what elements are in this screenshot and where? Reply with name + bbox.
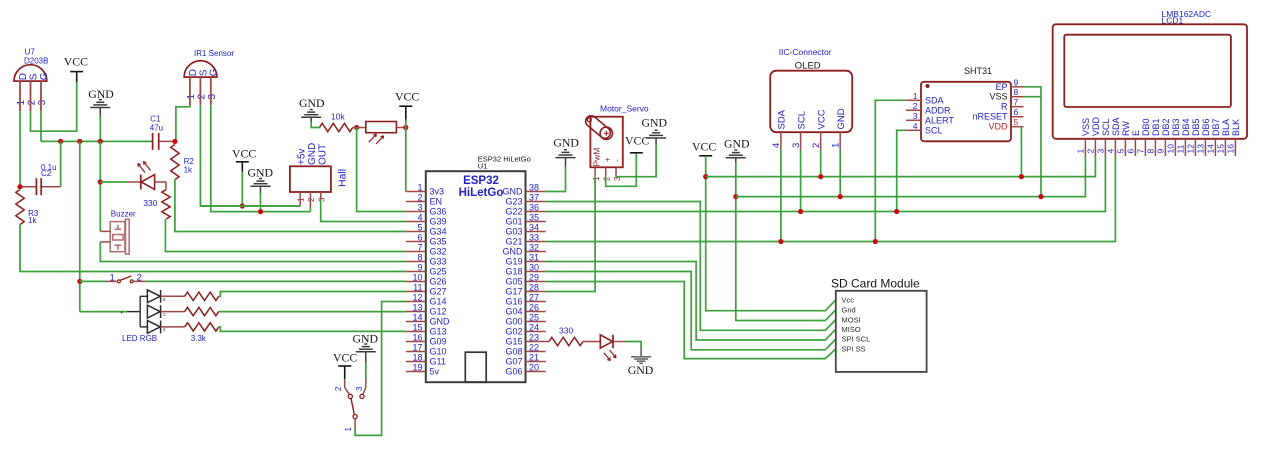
svg-text:330: 330 [559, 325, 573, 335]
svg-text:G25: G25 [430, 267, 447, 277]
LED D1 to 330 resistor [155, 181, 166, 183]
wire switch-net vertical x80 [79, 141, 81, 311]
wire G05 to SD SPI SS [546, 282, 836, 359]
svg-text:MISO: MISO [842, 325, 861, 334]
wire GND to 10k [311, 122, 319, 128]
svg-text:GND: GND [503, 187, 524, 197]
svg-text:G07: G07 [505, 357, 522, 367]
svg-text:SCL: SCL [925, 125, 943, 135]
svg-text:S: S [28, 73, 39, 80]
svg-text:SPI SCL: SPI SCL [842, 335, 871, 344]
svg-text:Gnd: Gnd [842, 305, 856, 314]
svg-text:G36: G36 [430, 207, 447, 217]
wire RGB-B to G27 row [219, 292, 406, 297]
LED D1 (left, red) wires [100, 181, 127, 183]
svg-text:+: + [120, 310, 124, 316]
wire hall pin2 tail [309, 207, 311, 212]
wire SHT31 EP/VSS to GND row [1024, 87, 1042, 197]
svg-text:12: 12 [412, 292, 422, 302]
SHT31 pin 4 SCL [906, 129, 921, 131]
wire U7 pin2 to VCC [31, 82, 77, 132]
IR1 pin stubs [189, 77, 191, 105]
svg-text:GND: GND [248, 166, 274, 180]
resistor 3.3k B [185, 292, 219, 300]
svg-text:G02: G02 [505, 327, 522, 337]
U1 pin 21 G07 [526, 361, 546, 363]
svg-text:G01: G01 [505, 217, 522, 227]
svg-text:G05: G05 [505, 277, 522, 287]
U1 pin 22 G08 [526, 351, 546, 353]
svg-text:VSS: VSS [989, 92, 1007, 102]
junction bus-C2 [58, 139, 63, 144]
svg-text:R: R [163, 328, 167, 333]
svg-text:MOSI: MOSI [842, 315, 861, 324]
U1 pin 20 G06 [526, 371, 546, 373]
svg-text:6: 6 [1126, 149, 1136, 154]
wire ground bus y141 [41, 140, 153, 142]
svg-text:G34: G34 [430, 227, 447, 237]
junction switch row [77, 279, 82, 284]
svg-text:2: 2 [197, 94, 208, 100]
U1 pin 17 G10 [406, 351, 426, 353]
svg-text:9: 9 [1156, 149, 1166, 154]
svg-text:10k: 10k [331, 111, 345, 121]
wire SHT31 VDD to VCC row [1020, 127, 1022, 177]
svg-text:VSS: VSS [1081, 118, 1091, 136]
junction GND-LED cathode [98, 179, 103, 184]
svg-text:DB7: DB7 [1211, 118, 1221, 136]
svg-text:1: 1 [592, 176, 601, 181]
wire IR1 pin3 to GND row [211, 105, 311, 211]
SHT31 pin 1 SDA [906, 99, 921, 101]
wire IR1 pin2 to VCC row [200, 105, 300, 206]
svg-text:19: 19 [412, 362, 422, 372]
svg-text:4: 4 [913, 121, 918, 131]
svg-text:7: 7 [1014, 97, 1019, 107]
svg-text:2: 2 [1086, 149, 1096, 154]
svg-text:SHT31: SHT31 [964, 66, 992, 76]
svg-text:5v: 5v [430, 367, 440, 377]
svg-text:5: 5 [1014, 117, 1019, 127]
svg-text:35: 35 [529, 212, 539, 222]
svg-text:HiLetGo: HiLetGo [459, 187, 504, 199]
svg-text:G22: G22 [505, 207, 522, 217]
svg-text:DB4: DB4 [1181, 118, 1191, 136]
svg-text:RW: RW [1121, 121, 1131, 136]
svg-text:16: 16 [1226, 144, 1236, 154]
svg-text:R: R [1001, 102, 1008, 112]
wire GND stem to bus [99, 116, 101, 142]
svg-text:PwM: PwM [591, 148, 601, 167]
svg-text:G09: G09 [430, 337, 447, 347]
svg-text:Vcc: Vcc [842, 296, 855, 305]
U1 pin 15 G13 [406, 331, 426, 333]
svg-text:4: 4 [417, 212, 422, 222]
svg-text:G11: G11 [430, 357, 446, 367]
svg-text:DB1: DB1 [1151, 118, 1161, 136]
svg-text:11: 11 [413, 282, 422, 292]
svg-text:11: 11 [1176, 144, 1186, 153]
svg-text:5: 5 [1116, 149, 1126, 154]
svg-text:G16: G16 [505, 297, 522, 307]
wire VCC down to 3v3 pin [405, 120, 407, 192]
svg-text:E: E [1131, 130, 1141, 136]
svg-text:nRESET: nRESET [972, 112, 1008, 122]
svg-text:ESP32: ESP32 [463, 175, 499, 187]
svg-text:G06: G06 [505, 367, 522, 377]
svg-text:3: 3 [1096, 149, 1106, 154]
servo pin stubs [594, 167, 596, 176]
svg-text:9: 9 [417, 262, 422, 272]
svg-text:2: 2 [913, 101, 918, 111]
SHT31 pin 3 ALERT [906, 119, 921, 121]
svg-text:G32: G32 [430, 247, 447, 257]
svg-text:1: 1 [297, 197, 306, 202]
svg-text:3.3k: 3.3k [191, 334, 207, 343]
svg-text:27: 27 [529, 292, 539, 302]
LED D1 body [140, 175, 142, 190]
svg-text:B: B [163, 297, 166, 302]
svg-text:Hall: Hall [337, 169, 349, 187]
wire 330 to G32 row [165, 220, 405, 252]
svg-text:G23: G23 [505, 197, 522, 207]
LED D2 body [600, 335, 612, 348]
LED RGB diode G [147, 305, 160, 318]
SHT31 pin 9 EP [1011, 86, 1024, 88]
switch SW1 [80, 280, 106, 282]
LED RGB lead R [161, 326, 185, 328]
hall pin 1 stub [299, 192, 301, 206]
wire OLED GND down [839, 150, 841, 197]
svg-text:32: 32 [529, 242, 539, 252]
svg-text:OLED: OLED [795, 60, 821, 71]
wire SCL row G22 [546, 156, 1106, 212]
wire buzzer bottom to G33 row [100, 242, 406, 262]
svg-text:1: 1 [1076, 149, 1086, 154]
svg-text:15: 15 [1216, 144, 1226, 154]
wire SDA row G21 [546, 156, 1116, 242]
svg-text:GND: GND [836, 108, 847, 129]
wire LED D2 to GND [625, 342, 641, 348]
svg-text:21: 21 [529, 352, 539, 362]
svg-text:DB6: DB6 [1201, 118, 1211, 136]
svg-text:36: 36 [529, 202, 539, 212]
U1 pin 30 G18 [526, 271, 546, 273]
U1 pin 19 5v [406, 371, 426, 373]
svg-text:DB3: DB3 [1171, 118, 1181, 136]
svg-text:1: 1 [16, 99, 27, 105]
svg-text:3v3: 3v3 [430, 187, 445, 197]
svg-text:GND: GND [430, 317, 451, 327]
LED RGB diode B [147, 290, 160, 303]
U1 pin 11 G27 [406, 291, 426, 293]
U1 pin 3 G36 [406, 211, 426, 213]
svg-text:7: 7 [1136, 149, 1146, 154]
svg-text:GND: GND [642, 116, 668, 130]
svg-text:3: 3 [207, 94, 218, 100]
svg-text:24: 24 [529, 322, 539, 332]
wire RGB-G to G12 row [219, 311, 406, 313]
svg-text:G: G [209, 68, 220, 76]
svg-text:IR1 Sensor: IR1 Sensor [194, 49, 234, 58]
SW2 pin1 stub [354, 419, 356, 430]
junction 10k-LDR-G36 [354, 125, 359, 130]
svg-text:14: 14 [1206, 144, 1216, 154]
U1 pin 28 G17 [526, 291, 546, 293]
buzzer pin leads [100, 230, 110, 232]
buzzer body [110, 222, 125, 252]
LED RGB lead B [161, 295, 185, 297]
svg-text:37: 37 [529, 192, 539, 202]
svg-text:DB2: DB2 [1161, 118, 1171, 136]
wire SW1 to G26 row [145, 280, 406, 282]
wire bus to C2 right plate [60, 141, 62, 186]
wire G18 to SD SPI SCL [546, 272, 836, 350]
svg-text:GND: GND [307, 143, 318, 165]
SW2 contacts [348, 394, 352, 398]
svg-text:14: 14 [412, 312, 422, 322]
wire U7 pin3 to ground bus [40, 111, 42, 141]
U1 pin 34 G03 [526, 231, 546, 233]
junction bus-switch net [77, 139, 82, 144]
U1 pin 33 G21 [526, 241, 546, 243]
svg-text:13: 13 [1196, 144, 1206, 154]
svg-text:G03: G03 [505, 227, 522, 237]
svg-text:C1: C1 [150, 114, 161, 123]
svg-text:12: 12 [1186, 144, 1196, 154]
IC U1 ESP32 body [426, 171, 526, 382]
power GND (D2) [640, 347, 642, 357]
svg-text:BLK: BLK [1231, 119, 1241, 136]
svg-text:VDD: VDD [988, 122, 1008, 132]
svg-text:31: 31 [529, 252, 539, 262]
OLED connector body [770, 71, 852, 133]
wire IR1 pin1 to C1/R2 node [176, 105, 190, 141]
svg-text:2: 2 [417, 192, 422, 202]
svg-text:S: S [198, 69, 209, 76]
svg-text:8: 8 [1146, 149, 1156, 154]
svg-text:38: 38 [529, 182, 539, 192]
svg-text:9: 9 [1014, 77, 1019, 87]
wire hall pin3 OUT to G39 row [321, 200, 406, 222]
svg-text:VCC: VCC [395, 89, 419, 103]
svg-text:17: 17 [412, 342, 422, 352]
LED RGB common wire [80, 311, 127, 313]
svg-text:13: 13 [412, 302, 422, 312]
wire VCC vertical to SD Vcc [706, 156, 836, 311]
svg-text:3: 3 [317, 197, 326, 202]
svg-text:D: D [18, 73, 29, 80]
svg-text:G19: G19 [505, 257, 522, 267]
servo arm icon [583, 113, 612, 140]
U1 pin 8 G33 [406, 261, 426, 263]
svg-text:U1: U1 [478, 161, 488, 170]
svg-text:20: 20 [529, 362, 539, 372]
svg-text:DB5: DB5 [1191, 118, 1201, 136]
svg-text:1: 1 [344, 427, 353, 432]
U7 pin 3 stub [40, 81, 42, 111]
wire GND to gnd row [260, 193, 262, 212]
hall pin 2 stub [309, 192, 311, 207]
svg-text:8: 8 [1014, 87, 1019, 97]
svg-text:6: 6 [1014, 107, 1019, 117]
svg-text:1: 1 [913, 91, 918, 101]
svg-text:6: 6 [417, 232, 422, 242]
svg-text:SDA: SDA [925, 95, 944, 105]
svg-text:VDD: VDD [1091, 116, 1101, 136]
svg-text:23: 23 [529, 332, 539, 342]
wire R2 to G34 row [175, 180, 406, 232]
wire GND to SW2 pin3 [365, 363, 367, 380]
svg-text:+: + [603, 157, 612, 162]
svg-text:16: 16 [412, 332, 422, 342]
SHT31 body [921, 82, 1011, 142]
junction C2-R3-U7pin1 [17, 184, 22, 189]
svg-text:G12: G12 [430, 307, 447, 317]
svg-text:G15: G15 [505, 337, 522, 347]
svg-text:22: 22 [529, 342, 539, 352]
resistor 3.3k G [185, 307, 219, 315]
wire OLED SCL down [800, 150, 802, 212]
svg-text:G26: G26 [430, 277, 447, 287]
svg-text:1k: 1k [184, 166, 193, 175]
wire GND vertical to SD Gnd [736, 163, 836, 321]
svg-text:3: 3 [37, 99, 48, 105]
junction GND row [733, 194, 738, 199]
svg-text:G00: G00 [505, 317, 522, 327]
wire OLED VCC down [820, 150, 822, 177]
svg-text:C2: C2 [41, 169, 52, 178]
wire G23 to SD MOSI [546, 202, 836, 331]
SHT31 pin 2 ADDR [906, 109, 921, 111]
wire SHT31 SCL to SCL row [897, 130, 906, 211]
U1 pin 38 GND [526, 191, 546, 193]
servo body [590, 117, 622, 168]
wire VCC row [706, 156, 1096, 177]
svg-text:330: 330 [143, 198, 157, 208]
svg-text:SDA: SDA [777, 109, 788, 129]
svg-text:3: 3 [417, 202, 422, 212]
U1 pin 13 G12 [406, 311, 426, 313]
svg-text:VCC: VCC [625, 134, 649, 148]
LED RGB lead G [161, 311, 185, 313]
wire servo PwM to G17 row [546, 177, 595, 292]
LDR arrows [369, 134, 377, 142]
LDR right lead [396, 127, 405, 129]
svg-text:34: 34 [529, 222, 539, 232]
wire VCC row to hall pin1 [200, 205, 300, 207]
resistor 3.3k R [185, 323, 219, 331]
svg-text:G39: G39 [430, 217, 447, 227]
wire G19 to SD MISO [546, 262, 836, 341]
hall connector body [290, 166, 331, 192]
wire U7 pin1 to C2/R3 node [19, 111, 21, 187]
svg-text:3: 3 [355, 386, 364, 391]
U1 pin 31 G19 [526, 261, 546, 263]
U1 pin 24 G02 [526, 331, 546, 333]
svg-text:SD Card Module: SD Card Module [831, 277, 920, 291]
hall pin 3 stub [320, 192, 322, 200]
LED D2 lead [613, 341, 625, 343]
U1 pin 7 G32 [406, 251, 426, 253]
svg-text:G21: G21 [505, 237, 522, 247]
wire SHT31 SDA to SDA row [875, 100, 906, 241]
svg-text:28: 28 [529, 282, 539, 292]
LED RGB bracket [139, 296, 141, 327]
SW2 lever [351, 398, 354, 414]
svg-text:2: 2 [334, 386, 343, 391]
svg-text:15: 15 [412, 322, 422, 332]
U1 pin 1 3v3 [406, 191, 426, 193]
junction GND row [258, 209, 263, 214]
svg-text:G35: G35 [430, 237, 447, 247]
svg-text:+5v: +5v [297, 149, 308, 165]
SHT31 pin 6 nRESET [1011, 116, 1024, 118]
svg-text:G04: G04 [505, 307, 522, 317]
LCD1 screen [1064, 35, 1231, 107]
wire pin38 to GND [546, 167, 566, 192]
wire GND row [736, 156, 1086, 197]
sensor IR1 dome body [184, 61, 217, 77]
U1 pin 16 G09 [406, 341, 426, 343]
junction VCC row [240, 203, 245, 208]
wire VCC to SW2 pin2 [344, 379, 346, 381]
U1 pin 9 G25 [406, 271, 426, 273]
photoresistor LDR body [366, 122, 397, 133]
wire servo + to VCC [606, 153, 637, 187]
svg-text:33: 33 [529, 232, 539, 242]
svg-text:VCC: VCC [692, 139, 716, 153]
U1 pin 18 G11 [406, 361, 426, 363]
svg-text:EP: EP [995, 82, 1007, 92]
svg-text:ADDR: ADDR [925, 105, 951, 115]
svg-text:VCC: VCC [333, 350, 357, 364]
U1 pin 25 G00 [526, 321, 546, 323]
svg-text:2: 2 [27, 99, 38, 105]
svg-text:3: 3 [913, 111, 918, 121]
U1 pin 36 G22 [526, 211, 546, 213]
sensor U7 dome body [14, 65, 47, 81]
svg-text:LED RGB: LED RGB [122, 334, 157, 343]
svg-text:G33: G33 [430, 257, 447, 267]
U7 pin 1 stub [19, 81, 21, 111]
U1 pin 12 G14 [406, 301, 426, 303]
svg-text:-: - [613, 159, 622, 162]
svg-text:18: 18 [412, 352, 422, 362]
junction C1-R2-IR1 node [172, 139, 177, 144]
svg-text:DB0: DB0 [1141, 118, 1151, 136]
svg-text:25: 25 [529, 312, 539, 322]
U1 pin 10 G26 [406, 281, 426, 283]
wire RGB-R to G13 row [219, 327, 406, 332]
svg-text:U7: U7 [25, 48, 36, 57]
svg-text:OUT: OUT [317, 144, 328, 165]
LED D2 emission arrows [610, 350, 617, 358]
svg-text:2: 2 [602, 176, 611, 181]
SHT31 pin 5 VDD [1011, 126, 1024, 128]
U7 pin 2 stub [30, 81, 32, 111]
svg-text:G: G [39, 72, 50, 80]
U1 pin 29 G05 [526, 281, 546, 283]
svg-text:30: 30 [529, 262, 539, 272]
U1 pin 6 G35 [406, 241, 426, 243]
svg-text:1: 1 [186, 94, 197, 100]
svg-text:SCL: SCL [1101, 118, 1111, 136]
svg-text:GND: GND [503, 247, 524, 257]
svg-text:G14: G14 [430, 297, 447, 307]
wire VCC to +5v row [241, 172, 243, 207]
svg-text:1: 1 [417, 182, 422, 192]
